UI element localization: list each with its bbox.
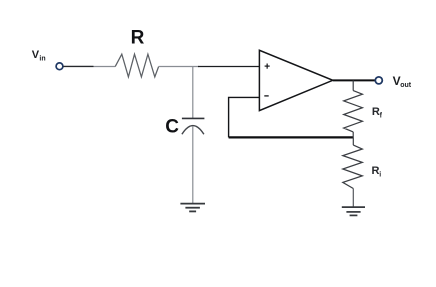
- wire capacitor C to ground: [192, 126, 194, 203]
- op-amp U1: [259, 50, 332, 110]
- wire op-amp output to Vout terminal: [333, 79, 376, 81]
- svg-text:out: out: [400, 82, 412, 89]
- wire feedback bottom run to node B: [229, 136, 354, 138]
- value label Ri: [372, 165, 382, 178]
- svg-text:C: C: [165, 116, 179, 137]
- pin label + (non-inverting): [265, 64, 270, 69]
- pin label - (inverting): [264, 95, 268, 97]
- capacitor C curved bottom plate: [182, 126, 204, 135]
- ground (below resistor Ri): [342, 207, 365, 215]
- svg-text:in: in: [39, 56, 45, 63]
- svg-text:i: i: [379, 171, 381, 178]
- wire output node down to resistor Rf: [352, 80, 354, 90]
- node Vin label: [32, 49, 46, 62]
- svg-text:R: R: [131, 28, 145, 49]
- terminal Vout (open circle): [375, 77, 382, 84]
- wire node B down to resistor Ri: [352, 137, 354, 145]
- wire node A to op-amp non-inverting input: [198, 66, 260, 68]
- wire node A down to capacitor C: [192, 67, 194, 119]
- ground (below capacitor C): [180, 204, 205, 212]
- wire Vin terminal to resistor R: [63, 65, 93, 67]
- resistor Rf: [344, 91, 363, 132]
- resistor Ri: [343, 145, 363, 188]
- wire resistor Rf to node B: [352, 132, 354, 138]
- capacitor C top plate: [182, 117, 205, 119]
- wire resistor R to node A (gray): [159, 66, 199, 68]
- value label Rf: [372, 106, 383, 119]
- wire (gray segment) into resistor R: [94, 66, 116, 68]
- node Vout label: [393, 74, 412, 89]
- terminal Vin (open circle): [56, 63, 63, 70]
- resistor R: [115, 54, 158, 77]
- wire inverting input feedback (left/down): [229, 97, 260, 137]
- wire resistor Ri to ground: [352, 189, 354, 208]
